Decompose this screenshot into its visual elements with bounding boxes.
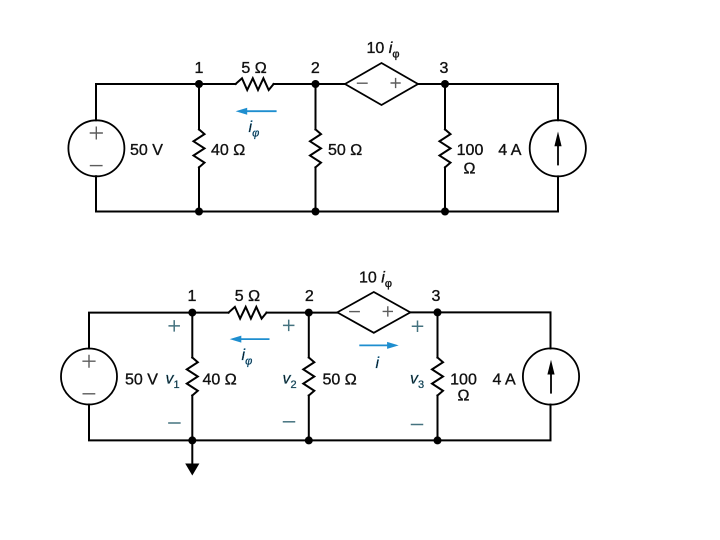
voltage source V1 50 V (top circuit)	[68, 120, 124, 176]
resistor R2 40 Ω (top circuit)	[194, 129, 205, 167]
resistor R7 50 Ω (bottom circuit)	[303, 358, 314, 396]
svg-text:5 Ω: 5 Ω	[235, 288, 260, 305]
junction: 50 Ω at bottom rail (bottom circuit)	[305, 436, 313, 444]
junction: 40 Ω at bottom rail	[195, 208, 203, 216]
wire: 40 Ω to bottom rail	[198, 167, 200, 211]
current source I2 arrow	[550, 374, 552, 393]
wire: 40 Ω to bottom rail (bottom circuit)	[191, 396, 193, 441]
current source I2 4 A (bottom circuit)	[523, 348, 579, 404]
polarity mark − for v3 (teal)	[412, 424, 423, 426]
ground symbol (reference node, bottom circuit)	[191, 440, 193, 464]
node 1 junction (top rail, bottom circuit)	[188, 309, 196, 317]
wire: 100 Ω to bottom rail (bottom circuit)	[437, 396, 439, 441]
junction: 100 Ω at bottom rail	[441, 208, 449, 216]
svg-text:2: 2	[311, 60, 320, 77]
polarity mark − for v2 (teal)	[284, 421, 295, 423]
current arrow i (bottom circuit, teal, pointing right)	[360, 344, 387, 346]
svg-text:10 iφ: 10 iφ	[359, 270, 392, 291]
svg-text:v1: v1	[166, 371, 180, 392]
node 1 junction (top rail)	[195, 80, 203, 88]
svg-text:50 Ω: 50 Ω	[328, 142, 362, 159]
current source I1 4 A (top circuit)	[530, 120, 586, 176]
wire: node2 to diamond (bottom circuit)	[267, 312, 338, 314]
svg-text:5 Ω: 5 Ω	[241, 60, 266, 77]
wire: node 3 upper stub (top circuit)	[444, 84, 446, 129]
wire: bottom rail (top circuit)	[96, 176, 558, 211]
svg-text:4 A: 4 A	[498, 142, 521, 159]
svg-text:Ω: Ω	[464, 161, 476, 178]
dependent source D1 polarity marks	[358, 79, 401, 88]
wire: node 1 upper stub (top circuit)	[198, 84, 200, 129]
junction: 100 Ω at bottom rail (bottom circuit)	[434, 436, 442, 444]
current source I1 arrow	[557, 146, 559, 165]
polarity mark + for v2 (teal)	[284, 320, 294, 330]
resistor R5 5 Ω (bottom circuit, horizontal)	[229, 307, 267, 319]
wire: 50 Ω to bottom rail	[315, 167, 317, 211]
node 3 junction (top rail, bottom circuit)	[434, 308, 442, 316]
voltage source V2 polarity marks	[83, 355, 95, 393]
current arrow iφ (top circuit, teal)	[247, 110, 276, 112]
wire: node 2 upper stub (bottom circuit)	[308, 313, 310, 358]
resistor R1 5 Ω (top circuit, horizontal)	[236, 78, 274, 90]
svg-text:50 V: 50 V	[130, 142, 163, 159]
polarity mark − for v1 (teal)	[169, 422, 180, 424]
svg-text:2: 2	[305, 288, 314, 305]
wire: diamond to node 3 to top-right corner (bottom circuit)	[410, 312, 550, 348]
svg-text:1: 1	[195, 60, 204, 77]
resistor R3 50 Ω (top circuit)	[310, 129, 321, 167]
wire: 100 Ω to bottom rail	[444, 167, 446, 211]
wire: node 1 upper stub (bottom circuit)	[191, 313, 193, 358]
node 2 junction (top rail, bottom circuit)	[305, 309, 313, 317]
dependent source D1 10iφ (top circuit diamond)	[345, 63, 418, 105]
svg-text:40 Ω: 40 Ω	[203, 372, 237, 389]
resistor R6 40 Ω (bottom circuit)	[187, 358, 198, 396]
svg-text:v2: v2	[283, 371, 297, 392]
svg-text:iφ: iφ	[249, 119, 260, 140]
junction: 50 Ω at bottom rail	[312, 208, 320, 216]
svg-text:v3: v3	[410, 371, 424, 392]
svg-text:Ω: Ω	[458, 388, 470, 405]
wire: diamond to node 3 to top-right corner (top circuit)	[418, 84, 558, 120]
voltage source V2 50 V (bottom circuit)	[61, 349, 117, 405]
node 3 junction (top rail)	[441, 80, 449, 88]
wire: bottom rail (bottom circuit)	[89, 405, 551, 441]
svg-text:40 Ω: 40 Ω	[211, 142, 245, 159]
svg-text:50 Ω: 50 Ω	[323, 372, 357, 389]
wire: node2 to diamond (top circuit)	[274, 83, 345, 85]
current arrow iφ (bottom circuit, teal, pointing left)	[241, 338, 269, 340]
svg-text:100: 100	[457, 142, 484, 159]
svg-text:100: 100	[450, 372, 477, 389]
wire: node 2 upper stub (top circuit)	[315, 84, 317, 129]
svg-text:10 iφ: 10 iφ	[367, 40, 400, 61]
svg-text:3: 3	[432, 288, 441, 305]
svg-text:3: 3	[440, 60, 449, 77]
resistor R8 100 Ω (bottom circuit)	[432, 358, 443, 396]
resistor R4 100 Ω (top circuit)	[440, 129, 451, 167]
dependent source D2 polarity marks	[350, 307, 393, 316]
wire: top rail left segment (bottom circuit)	[89, 313, 229, 349]
svg-text:50 V: 50 V	[125, 372, 158, 389]
svg-text:4 A: 4 A	[493, 372, 516, 389]
dependent source D2 10iφ (bottom circuit diamond)	[337, 292, 410, 333]
junction: 40 Ω / ground at bottom rail (bottom circuit)	[188, 436, 196, 444]
svg-text:i: i	[376, 355, 380, 372]
polarity mark + for v1 (teal)	[169, 321, 179, 331]
wire: node 3 upper stub (bottom circuit)	[437, 312, 439, 357]
voltage source V1 polarity marks	[90, 127, 102, 165]
wire: top rail left segment (top circuit)	[96, 84, 236, 120]
svg-text:iφ: iφ	[242, 347, 253, 368]
polarity mark + for v3 (teal)	[413, 321, 423, 331]
node 2 junction (top rail)	[312, 80, 320, 88]
wire: 50 Ω to bottom rail (bottom circuit)	[308, 396, 310, 441]
svg-text:1: 1	[187, 288, 196, 305]
